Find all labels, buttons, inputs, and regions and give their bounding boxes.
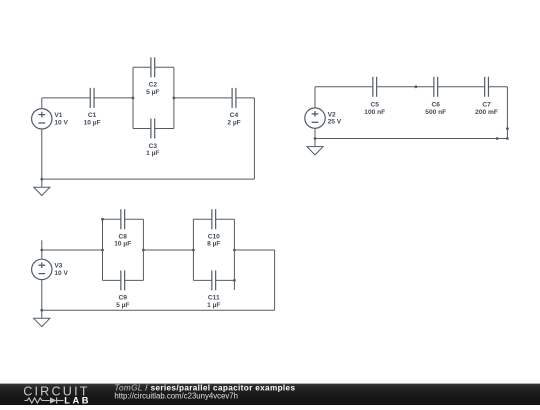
footer bar (0, 384, 540, 405)
svg-text:5 µF: 5 µF (116, 302, 129, 309)
capacitor C5 (100 nF) (364, 77, 385, 116)
capacitor C4 (2 µF) (227, 88, 240, 126)
voltage source V1 (10 V) (32, 109, 69, 129)
wire bottom branch right (155, 128, 174, 130)
svg-text:http://circuitlab.com/c23uny4v: http://circuitlab.com/c23uny4vcev7h (114, 391, 238, 400)
wire V1 bottom stub (41, 129, 43, 179)
svg-text:C9: C9 (119, 295, 128, 302)
wire box1 right edge (142, 219, 144, 280)
svg-text:C4: C4 (230, 112, 239, 119)
junction on right edge (506, 127, 509, 130)
wire box2 top branch right (216, 218, 235, 220)
svg-text:1 µF: 1 µF (146, 150, 159, 157)
wire V3 top stub (extends above node) (41, 240, 43, 259)
logo resistor zigzag (25, 398, 50, 403)
wire bottom return (315, 138, 507, 140)
wire box2 top branch left (193, 218, 211, 220)
capacitor C6 (500 nF) (425, 77, 446, 116)
svg-text:V1: V1 (54, 112, 62, 119)
wire box2 left edge (192, 219, 194, 280)
wire box1 top branch right (125, 218, 144, 220)
wire box1 left edge (102, 219, 104, 280)
wire C7 to right edge (488, 86, 507, 88)
wire V2 to C5 (315, 86, 373, 88)
capacitor C7 (200 mF) (475, 77, 498, 116)
junction at V3 top (40, 249, 43, 252)
svg-text:10 V: 10 V (54, 119, 68, 126)
wire V3 to box 1 (42, 249, 103, 251)
wire junction to C6 (416, 86, 434, 88)
svg-text:V3: V3 (54, 263, 62, 270)
junction box2 bottom-right (233, 279, 236, 282)
wire C6 to C7 (438, 86, 485, 88)
wire right edge down (506, 87, 508, 139)
svg-text:10 µF: 10 µF (84, 119, 101, 126)
wire V1 to C1 (42, 97, 90, 99)
wire box2 right edge (extends below) (233, 219, 235, 290)
svg-text:200 mF: 200 mF (475, 109, 498, 116)
wire top branch right (155, 66, 174, 68)
junction at ground 1 (40, 178, 43, 181)
svg-text:C8: C8 (119, 233, 128, 240)
wire V2 top stub (314, 87, 316, 108)
svg-text:C7: C7 (482, 102, 491, 109)
corner junction (506, 137, 509, 140)
svg-text:2 µF: 2 µF (227, 119, 240, 126)
svg-text:1 µF: 1 µF (207, 302, 220, 309)
junction between C5 and C6 (415, 85, 418, 88)
wire box1 to box2 (143, 249, 193, 251)
junction box1 top-left corner (101, 218, 104, 221)
svg-text:8 µF: 8 µF (207, 241, 220, 248)
capacitor C10 (8 µF) (207, 209, 220, 247)
svg-text:V2: V2 (328, 111, 336, 118)
wire V2 bottom stub (314, 128, 316, 138)
node D junction right (142, 249, 145, 252)
wire box1 bottom branch left (103, 279, 121, 281)
node A junction (132, 97, 135, 100)
capacitor C9 (5 µF) (116, 270, 129, 308)
capacitor C8 (10 µF) (114, 209, 131, 247)
capacitor C1 (10 µF) (84, 88, 101, 126)
svg-text:LAB: LAB (64, 395, 91, 405)
wire node B to C4 (174, 97, 232, 99)
svg-text:5 µF: 5 µF (146, 89, 159, 96)
svg-text:100 nF: 100 nF (364, 109, 385, 116)
svg-text:C11: C11 (208, 295, 220, 302)
svg-text:10 µF: 10 µF (114, 241, 131, 248)
wire right edge down (274, 250, 276, 310)
svg-text:500 nF: 500 nF (425, 109, 446, 116)
svg-text:C1: C1 (88, 112, 97, 119)
wire bottom return (42, 178, 255, 180)
wire box1 top branch left (103, 218, 121, 220)
junction at ground 3 (40, 309, 43, 312)
svg-text:C5: C5 (371, 102, 380, 109)
logo diode (50, 397, 56, 403)
wire box2 bottom branch right (216, 279, 235, 281)
wire C4 to right edge (236, 97, 255, 99)
wire bottom branch left (133, 128, 151, 130)
wire parallel box left edge (132, 67, 134, 128)
junction at ground 2 (314, 137, 317, 140)
wire top branch left (133, 66, 151, 68)
svg-text:C6: C6 (432, 102, 441, 109)
capacitor C2 (5 µF) (146, 57, 159, 96)
wire C1 to node A (94, 97, 133, 99)
wire V3 bottom stub (41, 280, 43, 311)
wire C5 to junction (377, 86, 416, 88)
capacitor C11 (1 µF) (207, 270, 220, 308)
wire bottom return (42, 309, 275, 311)
ground 1 (34, 179, 50, 195)
junction on bottom wire (496, 137, 499, 140)
wire right edge down (253, 98, 255, 179)
wire box2 bottom branch left (193, 279, 211, 281)
capacitor C3 (1 µF) (146, 119, 159, 158)
svg-text:25 V: 25 V (328, 119, 342, 126)
wire box1 bottom branch right (125, 279, 144, 281)
node F junction right (233, 249, 236, 252)
node B junction (173, 97, 176, 100)
voltage source V3 (10 V) (32, 259, 69, 279)
voltage source V2 (25 V) (305, 108, 342, 128)
svg-text:C2: C2 (149, 82, 158, 89)
wire parallel box right edge (173, 67, 175, 128)
node E junction left (192, 249, 195, 252)
ground 3 (34, 310, 50, 326)
svg-text:C3: C3 (149, 143, 158, 150)
svg-text:C10: C10 (208, 233, 220, 240)
wire box2 to right edge (234, 249, 274, 251)
svg-text:10 V: 10 V (54, 270, 68, 277)
node C junction left (101, 249, 104, 252)
ground 2 (307, 139, 323, 155)
wire V1 top stub (41, 98, 43, 109)
